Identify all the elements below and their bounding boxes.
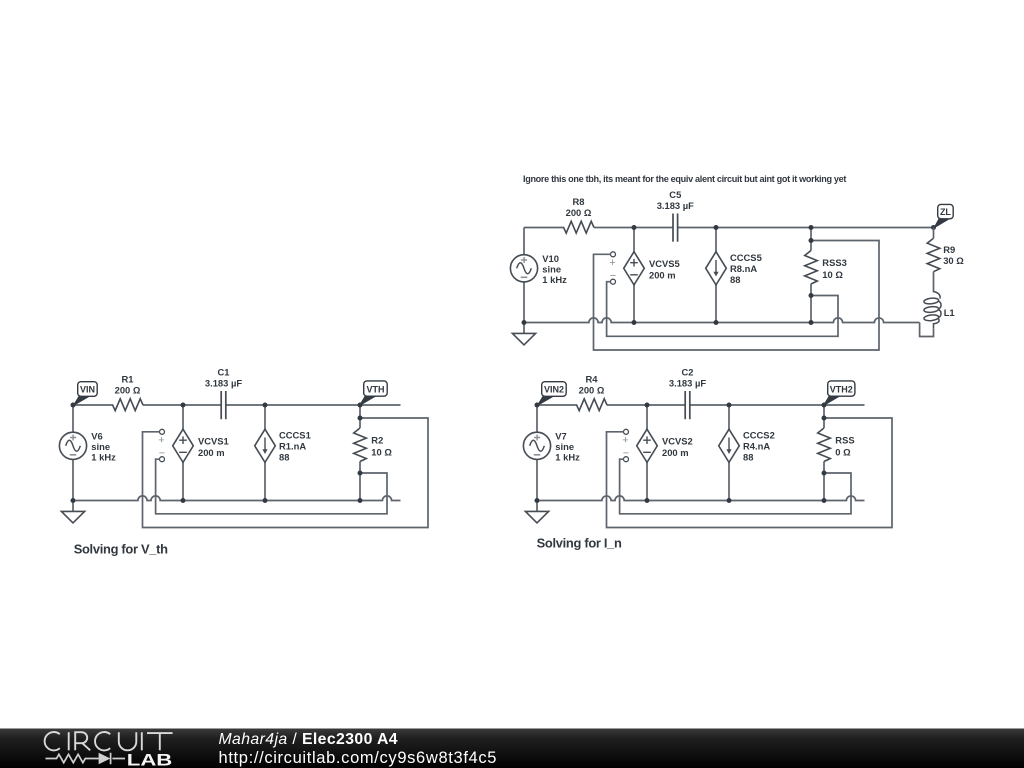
node in C bbox=[535, 403, 540, 408]
wire rout top lead C bbox=[823, 405, 825, 428]
svg-text:CCCS2: CCCS2 bbox=[743, 430, 775, 441]
svg-text:VTH2: VTH2 bbox=[830, 385, 853, 395]
wire vcvs bottom lead A bbox=[182, 462, 184, 500]
net flag ZL bbox=[934, 204, 953, 227]
capacitor C5 bbox=[673, 214, 678, 242]
node vcvs bottom A bbox=[181, 498, 186, 503]
svg-text:L1: L1 bbox=[944, 307, 955, 318]
resistor R2 bbox=[354, 428, 367, 462]
node cccs top A bbox=[263, 403, 268, 408]
node rout top tap A bbox=[358, 416, 363, 421]
label R9 value bbox=[943, 244, 964, 266]
svg-text:30 Ω: 30 Ω bbox=[943, 255, 964, 266]
svg-text:V6: V6 bbox=[91, 431, 102, 442]
node out A bbox=[358, 403, 363, 408]
logo resistor-diode glyph bbox=[46, 753, 126, 765]
label RSS value bbox=[835, 435, 854, 458]
svg-text:1 kHz: 1 kHz bbox=[555, 452, 580, 463]
wire rout top lead A bbox=[359, 405, 361, 428]
wire vcvs top lead C bbox=[646, 405, 648, 429]
label VCVS1 value bbox=[198, 436, 229, 459]
label RSS3 value bbox=[822, 257, 847, 280]
svg-text:1 kHz: 1 kHz bbox=[542, 274, 567, 285]
svg-text:CCCS5: CCCS5 bbox=[730, 252, 762, 263]
resistor R8 bbox=[564, 221, 594, 233]
node gnd B bbox=[522, 320, 527, 325]
wire source top lead C bbox=[536, 405, 538, 432]
wire rout bottom lead A bbox=[359, 461, 361, 500]
label R4 value bbox=[579, 374, 605, 396]
node vcvs bottom C bbox=[645, 498, 650, 503]
svg-text:R4.nA: R4.nA bbox=[743, 441, 770, 452]
svg-text:R9: R9 bbox=[943, 244, 955, 255]
net flag VTH bbox=[360, 381, 388, 405]
svg-text:R1.nA: R1.nA bbox=[279, 441, 306, 452]
svg-text:VCVS1: VCVS1 bbox=[198, 436, 229, 447]
label R8 value bbox=[566, 196, 592, 218]
svg-text:VIN2: VIN2 bbox=[544, 385, 564, 395]
node rout bottom tap A bbox=[358, 471, 363, 476]
wire source top lead B bbox=[523, 228, 525, 255]
node out C bbox=[822, 403, 827, 408]
node rout bottom tap C bbox=[822, 471, 827, 476]
svg-text:3.183 µF: 3.183 µF bbox=[205, 378, 242, 389]
svg-text:0 Ω: 0 Ω bbox=[835, 447, 851, 458]
dependent source VCVS2 bbox=[637, 429, 658, 462]
inductor L1 bbox=[924, 292, 941, 329]
svg-text:Ignore this one tbh, its meant: Ignore this one tbh, its meant for the e… bbox=[523, 174, 846, 184]
label R2 value bbox=[371, 435, 392, 458]
control terminal + VCVS2 bbox=[624, 429, 629, 434]
wire cccs top lead A bbox=[264, 405, 266, 429]
svg-text:sine: sine bbox=[555, 441, 574, 452]
wire bottom rail B bbox=[524, 318, 920, 323]
wire source bottom lead A bbox=[72, 459, 74, 500]
wire top rail right B bbox=[678, 227, 934, 229]
wire vcvs top lead A bbox=[182, 405, 184, 429]
svg-text:ZL: ZL bbox=[940, 207, 951, 217]
control terminal - VCVS2 bbox=[624, 457, 629, 462]
wire top rail left B bbox=[524, 227, 564, 229]
svg-text:Mahar4ja / Elec2300 A4: Mahar4ja / Elec2300 A4 bbox=[219, 731, 398, 748]
dependent source CCCS5 bbox=[706, 252, 727, 285]
label V6 value bbox=[91, 431, 116, 463]
svg-text:Solving for I_n: Solving for I_n bbox=[537, 535, 622, 550]
svg-text:V7: V7 bbox=[555, 431, 566, 442]
dependent source CCCS1 bbox=[255, 429, 276, 462]
wire source top lead A bbox=[72, 405, 74, 432]
wire vcvs bottom lead C bbox=[646, 462, 648, 500]
node cccs bottom B bbox=[714, 320, 719, 325]
wire top rail mid A bbox=[143, 404, 221, 406]
svg-text:VTH: VTH bbox=[366, 385, 384, 395]
node gnd A bbox=[71, 498, 76, 503]
svg-text:10 Ω: 10 Ω bbox=[822, 269, 843, 280]
wire top rail mid C bbox=[607, 404, 685, 406]
svg-text:3.183 µF: 3.183 µF bbox=[657, 200, 694, 211]
wire vcvs bottom lead B bbox=[633, 285, 635, 323]
net flag VIN bbox=[74, 382, 98, 406]
node in A bbox=[71, 403, 76, 408]
wire source bottom lead B bbox=[523, 282, 525, 323]
svg-text:Solving for V_th: Solving for V_th bbox=[74, 541, 168, 556]
dependent source CCCS2 bbox=[719, 429, 740, 462]
svg-text:200 Ω: 200 Ω bbox=[579, 385, 605, 396]
label CCCS5 value bbox=[730, 252, 762, 285]
svg-text:sine: sine bbox=[542, 264, 561, 275]
footer bar bbox=[0, 729, 1024, 768]
wire rout bottom lead B bbox=[810, 284, 812, 323]
wire control - feedback A bbox=[156, 459, 387, 514]
wire rout top lead B bbox=[810, 228, 812, 251]
dependent source VCVS5 bbox=[624, 252, 645, 285]
resistor R4 bbox=[577, 399, 607, 411]
wire cccs bottom lead C bbox=[728, 462, 730, 500]
label V10 value bbox=[542, 253, 567, 285]
svg-text:200 Ω: 200 Ω bbox=[566, 207, 592, 218]
node vcvs top B bbox=[632, 225, 637, 230]
node cccs top B bbox=[714, 225, 719, 230]
capacitor C2 bbox=[685, 391, 690, 419]
resistor R9 bbox=[927, 238, 940, 272]
wire R9 to L1 bbox=[933, 272, 935, 293]
wire bottom rail A bbox=[73, 496, 401, 501]
voltage source V10 bbox=[510, 255, 537, 282]
svg-text:R8: R8 bbox=[573, 196, 585, 207]
label V7 value bbox=[555, 431, 580, 463]
label R1 value bbox=[115, 374, 141, 396]
svg-text:VCVS2: VCVS2 bbox=[662, 436, 693, 447]
wire cccs top lead C bbox=[728, 405, 730, 429]
voltage source V7 bbox=[523, 432, 550, 459]
wire top rail right C bbox=[690, 404, 865, 406]
svg-text:+: + bbox=[609, 257, 615, 269]
wire control - feedback C bbox=[620, 459, 851, 514]
wire cccs bottom lead B bbox=[715, 285, 717, 323]
svg-text:88: 88 bbox=[743, 452, 753, 463]
wire cccs bottom lead A bbox=[264, 462, 266, 500]
node rout bottom B bbox=[809, 320, 814, 325]
wire vcvs top lead B bbox=[633, 228, 635, 252]
node vcvs top C bbox=[645, 403, 650, 408]
net flag VTH2 bbox=[824, 381, 855, 405]
svg-text:88: 88 bbox=[730, 274, 740, 285]
node rout bottom A bbox=[358, 498, 363, 503]
svg-text:200 Ω: 200 Ω bbox=[115, 385, 141, 396]
svg-text:1 kHz: 1 kHz bbox=[91, 452, 116, 463]
wire control - feedback B bbox=[607, 282, 838, 337]
label CCCS2 value bbox=[743, 430, 775, 463]
label CCCS1 value bbox=[279, 430, 311, 463]
svg-text:200 m: 200 m bbox=[649, 270, 676, 281]
ground A bbox=[61, 501, 84, 523]
wire top rail mid B bbox=[594, 227, 673, 229]
svg-text:88: 88 bbox=[279, 452, 289, 463]
net flag VIN2 bbox=[538, 382, 567, 406]
svg-text:C1: C1 bbox=[218, 367, 230, 378]
svg-text:sine: sine bbox=[91, 441, 110, 452]
svg-text:10 Ω: 10 Ω bbox=[371, 447, 392, 458]
svg-text:CCCS1: CCCS1 bbox=[279, 430, 311, 441]
resistor RSS bbox=[818, 428, 831, 462]
ground B bbox=[512, 323, 535, 345]
svg-text:R4: R4 bbox=[586, 374, 599, 385]
label VCVS5 value bbox=[649, 258, 680, 281]
node rout bottom tap B bbox=[809, 293, 814, 298]
wire control + feedback B bbox=[594, 241, 880, 351]
control terminal + VCVS1 bbox=[160, 429, 165, 434]
svg-text:3.183 µF: 3.183 µF bbox=[669, 378, 706, 389]
label C2 value bbox=[669, 367, 706, 389]
svg-text:R8.nA: R8.nA bbox=[730, 263, 757, 274]
svg-text:C2: C2 bbox=[682, 367, 694, 378]
label C1 value bbox=[205, 367, 242, 389]
node rout top tap B bbox=[809, 238, 814, 243]
wire L1 bottom jog bbox=[920, 323, 934, 337]
node vcvs bottom B bbox=[632, 320, 637, 325]
logo CIRCUIT wordmark bbox=[45, 732, 173, 750]
svg-text:R1: R1 bbox=[122, 374, 134, 385]
node cccs top C bbox=[727, 403, 732, 408]
node gnd C bbox=[535, 498, 540, 503]
svg-text:http://circuitlab.com/cy9s6w8t: http://circuitlab.com/cy9s6w8t3f4c5 bbox=[219, 749, 498, 767]
voltage source V6 bbox=[59, 432, 86, 459]
wire cccs top lead B bbox=[715, 228, 717, 252]
wire source bottom lead C bbox=[536, 459, 538, 500]
node cccs bottom C bbox=[727, 498, 732, 503]
control terminal + VCVS5 bbox=[611, 252, 616, 257]
resistor RSS3 bbox=[805, 251, 818, 285]
svg-text:+: + bbox=[622, 434, 628, 446]
capacitor C1 bbox=[221, 391, 226, 419]
wire top rail right A bbox=[226, 404, 401, 406]
node cccs bottom A bbox=[263, 498, 268, 503]
svg-text:VCVS5: VCVS5 bbox=[649, 258, 680, 269]
svg-text:RSS3: RSS3 bbox=[822, 257, 847, 268]
node ZL bbox=[931, 225, 936, 230]
svg-text:200 m: 200 m bbox=[662, 447, 689, 458]
ground C bbox=[525, 501, 548, 523]
node rout top tap C bbox=[822, 416, 827, 421]
node out B bbox=[809, 225, 814, 230]
wire bottom rail C bbox=[537, 496, 865, 501]
label VCVS2 value bbox=[662, 436, 693, 459]
wire control + feedback A bbox=[143, 418, 429, 528]
wire top rail left A bbox=[73, 404, 113, 406]
node vcvs top A bbox=[181, 403, 186, 408]
svg-text:VIN: VIN bbox=[80, 385, 95, 395]
svg-text:V10: V10 bbox=[542, 253, 559, 264]
svg-text:RSS: RSS bbox=[835, 435, 854, 446]
label C5 value bbox=[657, 189, 694, 211]
wire rout bottom lead C bbox=[823, 461, 825, 500]
svg-text:+: + bbox=[158, 434, 164, 446]
node rout bottom C bbox=[822, 498, 827, 503]
control terminal - VCVS5 bbox=[611, 279, 616, 284]
resistor R1 bbox=[113, 399, 143, 411]
wire R9 top lead bbox=[933, 228, 935, 239]
wire control + feedback C bbox=[607, 418, 893, 528]
svg-text:R2: R2 bbox=[371, 435, 383, 446]
svg-text:LAB: LAB bbox=[127, 751, 173, 768]
svg-text:C5: C5 bbox=[669, 189, 681, 200]
control terminal - VCVS1 bbox=[160, 457, 165, 462]
dependent source VCVS1 bbox=[173, 429, 194, 462]
wire top rail left C bbox=[537, 404, 577, 406]
svg-text:200 m: 200 m bbox=[198, 447, 225, 458]
